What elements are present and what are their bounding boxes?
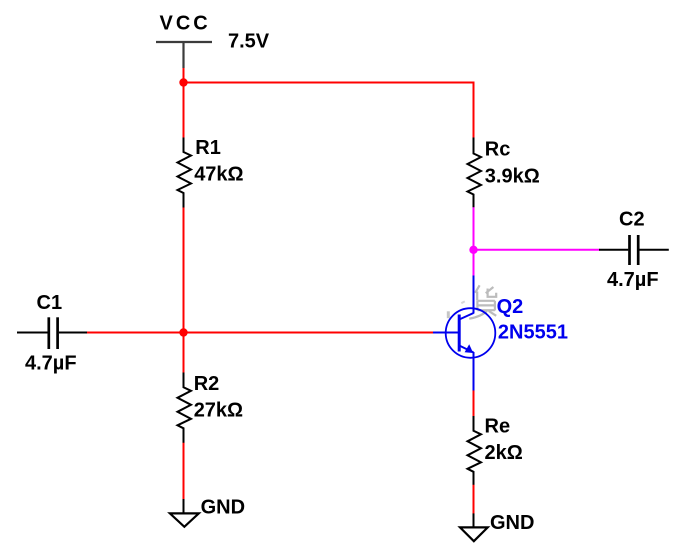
svg-text:27kΩ: 27kΩ [194,400,243,422]
svg-text:Q2: Q2 [497,296,524,318]
svg-text:4.7µF: 4.7µF [25,353,77,375]
svg-text:47kΩ: 47kΩ [194,163,243,185]
svg-text:2kΩ: 2kΩ [485,442,523,464]
svg-text:R2: R2 [194,373,220,395]
svg-text:C1: C1 [37,292,63,314]
svg-text:2N5551: 2N5551 [498,321,568,343]
svg-text:3.9kΩ: 3.9kΩ [485,166,540,188]
svg-text:C2: C2 [619,209,645,231]
svg-text:GND: GND [490,512,534,534]
svg-text:Re: Re [485,416,511,438]
svg-text:4.7µF: 4.7µF [607,269,659,291]
svg-text:7.5V: 7.5V [228,31,270,53]
svg-text:R1: R1 [195,137,221,159]
svg-text:GND: GND [201,497,245,519]
svg-text:VCC: VCC [160,13,211,35]
svg-text:Rc: Rc [485,138,511,160]
